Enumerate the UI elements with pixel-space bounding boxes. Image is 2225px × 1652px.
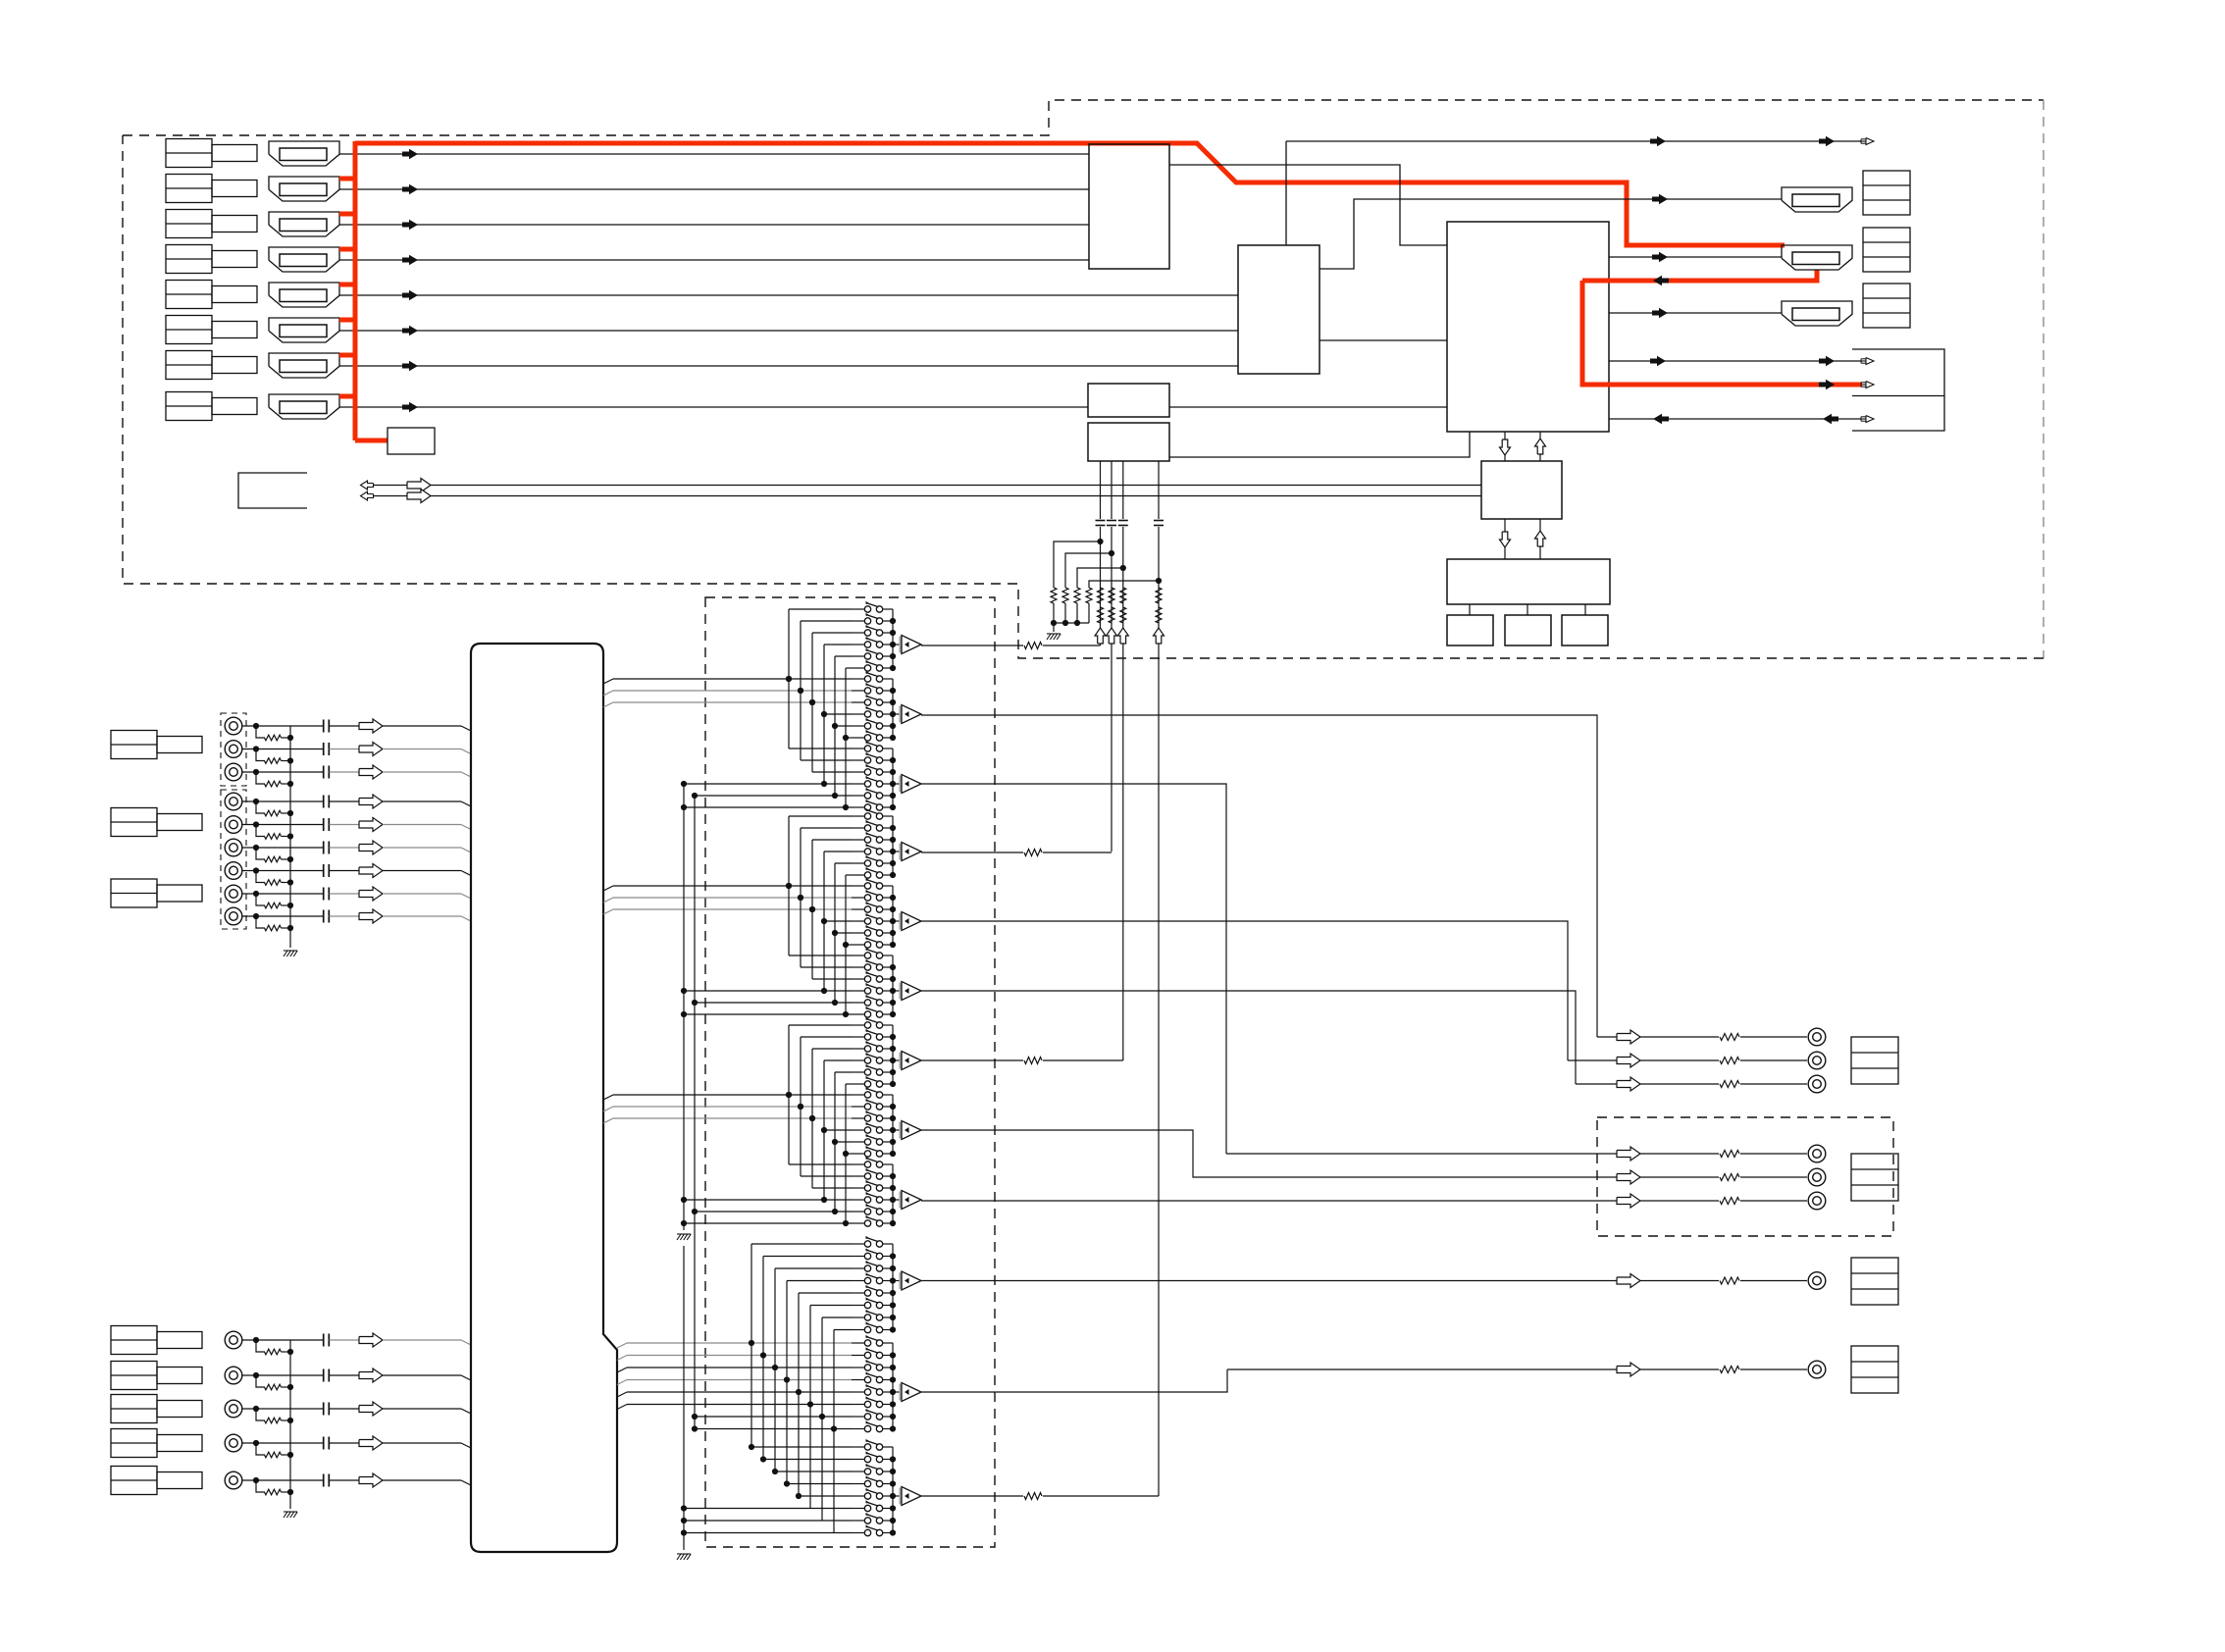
wire buffer U4 to DDC V2 with resistor [921, 850, 1112, 856]
wire block F to crystal boxes [1470, 604, 1585, 615]
switch bank S3a [852, 1017, 896, 1087]
surround back preout lines [1226, 1145, 1826, 1210]
switch bank S4b [852, 1335, 896, 1432]
series resistors and up arrows on DDC lines [1095, 588, 1164, 644]
HDMI input connector J6 [269, 318, 339, 342]
matrix section 4 bank 1 wiring [692, 1244, 852, 1533]
wire buffer U6 to preout SR [921, 991, 1576, 1084]
wire block B out to HDMI OUT1 [1319, 194, 1782, 269]
matrix left bus wire A [677, 783, 691, 1240]
switch bank S2a [852, 808, 896, 878]
HDMI input connector J7 [269, 353, 339, 378]
HDMI input label box J8 [166, 392, 257, 421]
pull-up resistor network with ground [1047, 539, 1162, 640]
wire top line block B to right (CEC) [1286, 136, 1874, 245]
wire HDMI row 3 to switch block [339, 220, 1089, 230]
HDMI input connector J3 [269, 212, 339, 236]
wire buffer U11 jog to zone preout [921, 1369, 1227, 1392]
tuner bracket box [1852, 349, 1944, 431]
wire block C to HDMI OUT2 [1609, 252, 1782, 262]
red highlighted path top run to HDMI switch and out [355, 143, 1785, 245]
zone label box [1851, 1346, 1898, 1393]
switch bank S2b [852, 878, 896, 948]
matrix section 3 input wiring [681, 1025, 852, 1226]
buffer U8 [893, 1121, 921, 1140]
dashed outline input selector matrix box [705, 597, 995, 1547]
wire buffer U12 to DDC V4 with resistor [921, 1493, 1159, 1500]
matrix section 1 input wiring [681, 609, 852, 810]
crystal box G2 [1505, 615, 1551, 645]
switch bank S1a [852, 601, 896, 671]
red bus terminator wire and box [355, 428, 435, 454]
wire HDMI row 1 to switch block [339, 149, 1089, 159]
analog input label lower 5 [111, 1467, 202, 1495]
trunk exits to matrix section 4 [617, 1343, 852, 1410]
wire HDMI row 8 to switch block [339, 402, 1088, 412]
HDMI input connector J8 [269, 394, 339, 419]
switch bank S4c [852, 1439, 896, 1536]
HDMI switch / repeater block C [1447, 222, 1609, 432]
preout group 1 lines [1568, 1028, 1826, 1093]
signal trunk bundle outline [471, 644, 617, 1552]
switch bank S3b [852, 1087, 896, 1157]
upper RCA ground bus [284, 726, 297, 956]
wire buffer U2 to preout FL [921, 715, 1597, 1037]
wire buffer U3 to SB preout row1 [921, 784, 1226, 1154]
crystal box G1 [1447, 615, 1493, 645]
red highlighted HDMI signal bus (vertical) [339, 141, 355, 440]
lower RCA ground bus [284, 1340, 297, 1518]
HDMI input connector J1 [269, 141, 339, 166]
HDMI input label box J5 [166, 281, 257, 309]
HDMI receiver block B [1238, 245, 1319, 374]
HDMI input label box J2 [166, 175, 257, 203]
switch bank S3c [852, 1157, 896, 1226]
wire block E down to F with arrows [1500, 519, 1546, 559]
wire block B out to block C [1319, 339, 1447, 341]
red ARC return path [1582, 270, 1874, 389]
buffer U1 [893, 636, 921, 654]
trunk exits to matrix section 1 [603, 679, 852, 707]
MCU block E [1481, 461, 1562, 519]
buffer U10 [893, 1271, 921, 1290]
analog input label upper 3 [111, 879, 202, 907]
switch bank S4a [852, 1236, 896, 1333]
wire buffer U8 to SB preout row2 [921, 1130, 1597, 1177]
switch bank S1b [852, 671, 896, 741]
HDMI input connector J2 [269, 177, 339, 201]
wire block A out to block C [1169, 165, 1447, 245]
wire buffer U9 to SB preout row3 [921, 1200, 1599, 1202]
wire HDMI row 5 to switch block [339, 290, 1238, 300]
preout group 1 label box [1851, 1037, 1898, 1084]
HDMI input label box J7 [166, 351, 257, 380]
dashed box around upper RCA jacks 1-3 [221, 713, 246, 786]
EDID block D1 [1088, 384, 1169, 417]
analog audio input channels upper group (9x RCA) [225, 717, 471, 931]
wire buffer U1 to DDC V1 with resistor [921, 643, 1101, 649]
matrix section 2 input wiring [681, 816, 852, 1017]
analog input label lower 2 [111, 1362, 202, 1390]
HDMI input connector J4 [269, 247, 339, 272]
switch bank S2c [852, 948, 896, 1017]
HDMI input label box J1 [166, 139, 257, 168]
wire HDMI row 4 to switch block [339, 255, 1089, 265]
surround back preout label box [1851, 1154, 1898, 1201]
DDC line V1 from D2 with capacitor [1096, 461, 1106, 645]
dashed box around upper RCA jacks 4-9 [221, 790, 246, 929]
HDMI input label box J6 [166, 316, 257, 344]
HDMI output label box OUT1 [1863, 171, 1910, 215]
DDC line V4 from D2 with capacitor [1154, 461, 1164, 1496]
wire block C down to E with arrows [1500, 432, 1546, 461]
zone preout line [1227, 1361, 1826, 1378]
DDC line V3 from D2 with capacitor [1118, 461, 1128, 1060]
buffer U5 [893, 912, 921, 931]
wire block C to HDMI OUT3 [1609, 308, 1782, 318]
HDMI output connector OUT2 [1782, 245, 1852, 270]
HDMI input label box J3 [166, 210, 257, 238]
wire buffer U5 to preout C [921, 921, 1568, 1060]
system micro block F [1447, 559, 1610, 604]
wire HDMI row 6 to switch block [339, 326, 1238, 336]
DDC line V2 from D2 with capacitor [1107, 461, 1116, 852]
dashed outline surround-back preout box [1597, 1117, 1893, 1236]
buffer U11 [893, 1383, 921, 1402]
wire buffer U7 to DDC V3 with resistor [921, 1058, 1123, 1064]
EDID block D2 [1088, 423, 1169, 461]
subwoofer preout line [921, 1272, 1826, 1290]
HDMI input label box J4 [166, 245, 257, 274]
trunk exits to matrix section 3 [603, 1095, 852, 1123]
HDMI output label box OUT2 [1863, 228, 1910, 272]
wire HDMI row 8 continuation D1 to HDCP block C [1169, 406, 1447, 408]
buffer U3 [893, 775, 921, 794]
wire block D2 to block C [1169, 432, 1470, 457]
matrix section 4 bank 0 wiring [0, 0, 1, 1]
switch bank S1c [852, 741, 896, 810]
HDMI input connector J5 [269, 283, 339, 307]
HDMI receiver block A [1089, 144, 1169, 269]
analog input label lower 4 [111, 1429, 202, 1458]
analog input label lower 1 [111, 1326, 202, 1355]
wire HDMI row 7 to switch block [339, 361, 1238, 371]
control bracket box left [238, 473, 307, 508]
crystal box G3 [1562, 615, 1608, 645]
buffer U6 [893, 982, 921, 1001]
wire tuner bracket to block C (return) [1609, 414, 1874, 424]
buffer U12 [893, 1487, 921, 1506]
analog input label upper 1 [111, 731, 202, 759]
buffer U4 [893, 843, 921, 861]
dashed outline HDMI section (combined top-left and top-right) [123, 100, 2044, 658]
buffer U7 [893, 1052, 921, 1070]
trunk exits to matrix section 2 [603, 886, 852, 914]
bus wire pair to block E [361, 479, 1482, 503]
wire HDMI row 2 to switch block [339, 184, 1089, 194]
HDMI output label box OUT3 [1863, 284, 1910, 328]
analog input label upper 2 [111, 808, 202, 837]
HDMI output connector OUT3 [1782, 301, 1852, 326]
matrix section 4 bank 2 wiring [681, 1444, 852, 1536]
wire block C to tuner bracket (out) [1609, 356, 1874, 366]
buffer U9 [893, 1191, 921, 1210]
HDMI output connector OUT1 [1782, 187, 1852, 212]
buffer U2 [893, 705, 921, 724]
subwoofer label box [1851, 1258, 1898, 1305]
matrix left bus wire B [694, 795, 696, 1429]
analog input label lower 3 [111, 1395, 202, 1423]
analog audio input channels lower group (5x RCA) [225, 1331, 471, 1495]
matrix left bus wire A2 [677, 1246, 691, 1560]
